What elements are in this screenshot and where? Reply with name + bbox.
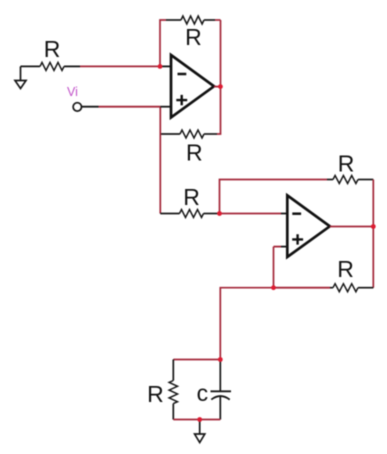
capacitor C1 [197,360,231,420]
wire [173,359,220,361]
node J1 [158,64,163,69]
wire [99,106,161,108]
wire [82,106,99,108]
resistor R1 [40,36,80,70]
wire [273,247,275,288]
svg-text:R: R [337,256,354,282]
wire [214,86,221,88]
wire [281,213,287,215]
resistor R3 [160,130,217,166]
svg-text:R: R [44,36,61,62]
wire [173,419,220,421]
svg-text:Vi: Vi [67,85,78,99]
wire [160,106,171,108]
wire [330,226,374,228]
wire [160,213,179,215]
op-amp U2 [287,195,330,257]
node J3 [217,211,222,216]
wire [160,20,166,66]
wire [274,246,282,248]
svg-text:R: R [338,151,355,177]
wire [160,65,171,67]
wire [217,20,221,134]
svg-text:R: R [185,24,202,50]
wire [372,180,374,288]
node J4 [371,224,376,229]
node Vi terminal [73,103,81,111]
svg-text:R: R [147,381,164,407]
resistor R6 [330,256,373,292]
wire [220,213,282,215]
op-amp U1 [171,55,214,118]
resistor R4 [180,184,219,218]
ground [15,66,26,88]
resistor R2 [166,16,215,50]
node J7 [197,417,202,422]
node J5 [271,285,276,290]
wire [80,65,160,67]
wire [281,246,287,248]
node J6 [218,357,223,362]
svg-text:R: R [183,184,200,210]
svg-text:R: R [186,140,203,166]
ground [195,420,205,443]
node J2 [218,84,223,89]
wire [220,288,273,360]
wire [220,180,328,214]
wire [159,107,161,214]
wire [274,287,331,289]
resistor R7 [147,360,177,420]
wire [215,19,221,21]
wire [21,65,41,67]
resistor R5 [327,151,373,184]
svg-text:c: c [197,380,209,406]
